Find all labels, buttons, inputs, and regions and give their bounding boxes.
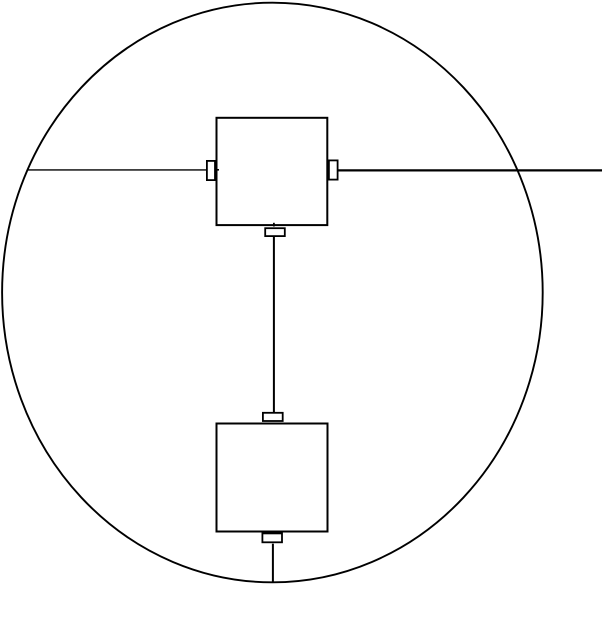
pin P5 (bottom sheet entry of U2) [262,533,282,542]
pin P2 (right sheet entry of U1) [329,160,338,179]
pin tick (bottom, inside U1) [273,223,275,227]
pin tick (left, inside U1) [216,169,220,171]
wire (right horizontal from right pin to edge) [337,169,602,171]
block U1 (top sheet symbol) [217,118,328,225]
wire (vertical from U2 bottom pin to circle) [272,544,274,583]
pin P3 (bottom sheet entry of U1) [265,228,285,236]
wire (left horizontal into left pin) [27,169,207,171]
pin P4 (top sheet entry of U2) [263,413,283,421]
block U2 (bottom sheet symbol) [217,424,328,532]
wire (vertical between U1 and U2) [273,237,275,412]
pin P1 (left sheet entry of U1) [207,161,215,180]
